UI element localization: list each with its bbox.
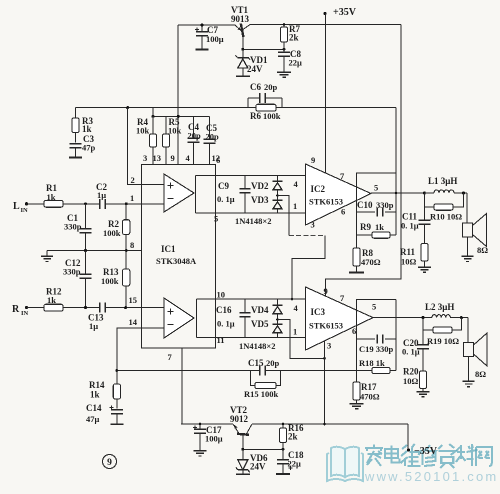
- wire pin2 from rail: [128, 108, 164, 185]
- svg-text:R: R: [12, 304, 20, 315]
- svg-text:L: L: [13, 201, 20, 212]
- inductor L1 3uH: [434, 190, 454, 193]
- resistor R8 470: [353, 248, 360, 266]
- node R_IN terminal: [25, 306, 28, 309]
- wire pin7 stub and box top y173: [357, 173, 397, 187]
- capacitor C8 22u: [283, 49, 285, 52]
- ground under speaker2: [468, 357, 470, 382]
- svg-text:3: 3: [327, 341, 331, 351]
- wire NFB rail y107.6: [76, 107, 397, 109]
- capacitor C15 20p series: [259, 366, 261, 376]
- wire VT2 base line y449.3: [243, 448, 283, 450]
- resistor R2 100k: [125, 204, 127, 220]
- svg-text:330p: 330p: [64, 222, 82, 232]
- resistor R10 10 parallel loop: [424, 193, 434, 207]
- svg-text:R15 100k: R15 100k: [244, 389, 279, 399]
- capacitor C7 100u: [201, 25, 203, 32]
- svg-text:9: 9: [311, 155, 315, 165]
- svg-text:0. 1μ: 0. 1μ: [217, 319, 235, 329]
- svg-text:24V: 24V: [247, 64, 263, 74]
- capacitor C9 0.1u: [244, 176, 246, 189]
- svg-text:IC1: IC1: [161, 244, 176, 254]
- svg-text:100k: 100k: [103, 228, 121, 238]
- resistor R20 10: [419, 371, 426, 389]
- svg-text:9013: 9013: [231, 14, 250, 24]
- wire IC3 pin3 drop: [324, 341, 326, 424]
- svg-text:L2 3μH: L2 3μH: [425, 302, 454, 312]
- svg-text:20p: 20p: [206, 132, 220, 142]
- svg-text:C16: C16: [216, 305, 232, 315]
- svg-text:R18 1k: R18 1k: [359, 358, 385, 368]
- ground under speaker1: [467, 237, 469, 256]
- svg-text:22μ: 22μ: [288, 459, 302, 469]
- node junction C1: [84, 202, 87, 205]
- wire pin10/pin4 line y299: [197, 298, 306, 300]
- ground under R8: [349, 272, 364, 274]
- svg-text:1N4148×2: 1N4148×2: [235, 216, 271, 226]
- wire +35V feed to IC3 pin9: [326, 25, 401, 296]
- svg-text:2: 2: [131, 175, 135, 185]
- svg-text:10k: 10k: [136, 126, 150, 136]
- wire ground line y250.5 pin8: [47, 250, 142, 252]
- resistor R11 10: [421, 244, 428, 262]
- op-amp IC3 STK6153: [306, 287, 374, 350]
- svg-text:6: 6: [352, 326, 356, 336]
- svg-text:11: 11: [217, 335, 225, 345]
- svg-text:1μ: 1μ: [97, 190, 106, 200]
- svg-text:IC2: IC2: [311, 184, 326, 194]
- svg-text:0. 1μ: 0. 1μ: [401, 221, 419, 231]
- wire NFB line y370.5: [117, 370, 260, 372]
- node diode midpoint ch2: [276, 318, 279, 321]
- svg-text:+35V: +35V: [333, 7, 357, 18]
- svg-text:470Ω: 470Ω: [361, 257, 381, 267]
- node diode midpoint ch1: [276, 194, 279, 197]
- svg-text:1μ: 1μ: [89, 321, 98, 331]
- svg-text:47μ: 47μ: [86, 414, 100, 424]
- ground under C17: [194, 450, 207, 452]
- ground under C14: [110, 423, 123, 425]
- wire rail right drop x396 to output: [395, 108, 397, 235]
- svg-text:14: 14: [129, 317, 138, 327]
- svg-text:20p: 20p: [264, 82, 278, 92]
- capacitor C10 330p: [357, 211, 376, 213]
- wire pin11/pin1 line y337.5: [197, 337, 306, 339]
- ground under C3: [69, 157, 82, 159]
- transistor VT1: [241, 24, 244, 38]
- svg-text:C9: C9: [218, 181, 229, 191]
- svg-text:100μ: 100μ: [206, 34, 224, 44]
- capacitor C2 1u: [99, 199, 101, 209]
- svg-text:5: 5: [214, 214, 218, 224]
- svg-text:470Ω: 470Ω: [360, 392, 380, 402]
- svg-text:1k: 1k: [82, 124, 92, 134]
- resistor R6 100k: [256, 104, 276, 111]
- capacitor C5 20p pin12: [209, 116, 211, 139]
- svg-text:1: 1: [293, 327, 297, 337]
- svg-text:R6: R6: [250, 111, 261, 121]
- svg-text:C6: C6: [250, 82, 261, 92]
- svg-text:9012: 9012: [230, 414, 249, 424]
- svg-text:10: 10: [217, 290, 226, 300]
- svg-text:8Ω: 8Ω: [475, 369, 486, 379]
- svg-text:STK6153: STK6153: [309, 321, 343, 331]
- svg-text:5: 5: [372, 302, 376, 312]
- svg-text:C15: C15: [248, 358, 264, 368]
- wire IC1 pin7 drop: [181, 348, 183, 424]
- wire box left column x356.5: [356, 173, 358, 248]
- wire pin1 line y213: [196, 212, 306, 214]
- ground under C7: [196, 49, 209, 51]
- capacitor C20 0.1u: [422, 330, 424, 345]
- svg-text:1k: 1k: [90, 390, 100, 400]
- inductor L2 3uH: [432, 315, 450, 318]
- svg-text:R19 10Ω: R19 10Ω: [427, 336, 459, 346]
- op-amp IC2 STK6153: [306, 164, 372, 225]
- svg-text:IN: IN: [21, 207, 29, 214]
- wire -35V drop: [407, 424, 409, 450]
- svg-text:330p: 330p: [63, 267, 81, 277]
- wire bottom rail y424: [181, 423, 233, 425]
- capacitor C11 0.1u: [423, 193, 425, 220]
- zener diode VD6 24V: [242, 449, 244, 459]
- svg-text:10Ω: 10Ω: [401, 257, 417, 267]
- svg-text:100k: 100k: [263, 111, 281, 121]
- resistor R18 1k: [372, 367, 390, 373]
- capacitor C12 330p: [85, 251, 87, 275]
- ground under VD1: [236, 75, 250, 77]
- resistor R12 1k: [27, 307, 45, 309]
- svg-text:22μ: 22μ: [289, 58, 303, 68]
- resistor R16 2k: [282, 424, 284, 428]
- svg-text:IN: IN: [21, 310, 29, 317]
- wire pin3 jog ch2: [278, 320, 325, 359]
- figure number 9 circled: [103, 455, 117, 469]
- zener diode VD1 24V: [242, 49, 244, 57]
- svg-text:8: 8: [130, 240, 134, 250]
- loudspeaker 1 8ohm: [466, 193, 468, 223]
- svg-text:2k: 2k: [289, 33, 299, 43]
- diode VD3: [277, 196, 279, 200]
- svg-text:1: 1: [130, 193, 134, 203]
- capacitor C14 47u: [109, 407, 113, 409]
- svg-text:R10 10Ω: R10 10Ω: [430, 212, 462, 222]
- svg-text:VD5: VD5: [251, 319, 269, 329]
- wire box2 right column x396: [395, 300, 397, 371]
- resistor R7 2k: [283, 25, 285, 28]
- svg-text:0. 1μ: 0. 1μ: [402, 347, 420, 357]
- svg-text:3: 3: [311, 220, 315, 230]
- capacitor C17 100u: [199, 424, 201, 429]
- capacitor C1 330p: [85, 204, 87, 229]
- ground under R20: [417, 391, 430, 393]
- resistor R5 10k pin13: [165, 116, 167, 134]
- wire regulator drop x178: [177, 25, 179, 165]
- node L_IN terminal: [25, 202, 28, 205]
- node +35V terminal: [324, 12, 327, 15]
- wire VD1 to R7 line y49: [243, 48, 284, 50]
- resistor R1 1k: [27, 203, 45, 205]
- capacitor C18 22u: [282, 449, 284, 460]
- resistor R14 1k: [116, 371, 118, 385]
- wire pin14 line: [117, 328, 164, 370]
- wire ladder left edge: [195, 176, 197, 213]
- wire VT1 emitter line y25: [178, 24, 235, 26]
- svg-text:−35V: −35V: [414, 446, 438, 457]
- svg-text:C14: C14: [86, 403, 102, 413]
- capacitor C3 47p: [75, 133, 77, 143]
- ground under R11: [418, 266, 431, 268]
- svg-text:VD4: VD4: [251, 305, 269, 315]
- ground under R17: [350, 403, 364, 405]
- wire pin7 stub and box top ch2: [357, 300, 397, 310]
- svg-text:20p: 20p: [266, 358, 280, 368]
- wire +35V vertical to IC2 pin 9: [324, 14, 326, 174]
- diode VD5: [277, 320, 279, 324]
- svg-text:47p: 47p: [82, 143, 96, 153]
- svg-text:STK6153: STK6153: [309, 197, 343, 207]
- svg-text:100k: 100k: [101, 276, 119, 286]
- svg-text:15: 15: [129, 295, 138, 305]
- resistor R13 100k: [125, 251, 127, 270]
- wire pin3 jog ch1: [278, 196, 290, 236]
- svg-text:www.520101.com: www.520101.com: [364, 469, 498, 484]
- svg-text:100μ: 100μ: [205, 434, 223, 444]
- node -35V terminal: [407, 448, 410, 451]
- svg-text:R17: R17: [361, 382, 377, 392]
- capacitor C16 0.1u: [244, 299, 246, 313]
- svg-text:1k: 1k: [47, 192, 56, 202]
- ground mid-left: [46, 251, 48, 257]
- op-amp IC1b triangle: [164, 298, 194, 338]
- resistor R15 100k parallel: [251, 371, 256, 386]
- transistor VT2: [237, 434, 249, 435]
- op-amp IC1 STK3048A box: [142, 165, 216, 349]
- svg-text:L1 3μH: L1 3μH: [428, 176, 457, 186]
- watermark book logo: [327, 447, 363, 481]
- svg-text:C19 330p: C19 330p: [359, 344, 394, 354]
- capacitor C19 330p: [357, 338, 376, 340]
- svg-text:8Ω: 8Ω: [477, 245, 488, 255]
- capacitor C13 1u / pin15 line: [99, 303, 101, 313]
- svg-text:330p: 330p: [376, 200, 394, 210]
- svg-text:20p: 20p: [188, 131, 202, 141]
- ground under C18: [276, 473, 290, 475]
- svg-text:STK3048A: STK3048A: [156, 256, 197, 266]
- svg-text:R11: R11: [400, 247, 416, 257]
- wire output line ch1 y193: [371, 192, 434, 194]
- svg-text:IC3: IC3: [311, 307, 326, 317]
- resistor R19 10 parallel loop: [423, 318, 433, 330]
- svg-text:R20: R20: [403, 367, 419, 377]
- capacitor C4 20p pin4: [193, 116, 195, 138]
- wire +35V top rail y24: [250, 24, 401, 26]
- svg-text:3: 3: [143, 153, 147, 163]
- svg-text:13: 13: [153, 153, 162, 163]
- svg-text:10k: 10k: [168, 126, 182, 136]
- svg-text:0. 1μ: 0. 1μ: [217, 194, 235, 204]
- svg-text:1: 1: [293, 201, 297, 211]
- svg-text:9: 9: [107, 458, 112, 468]
- svg-text:1k: 1k: [375, 222, 384, 232]
- svg-text:1N4148×2: 1N4148×2: [239, 341, 275, 351]
- svg-text:VD3: VD3: [251, 195, 269, 205]
- watermark chinese text: [365, 445, 383, 467]
- loudspeaker 2 8ohm: [467, 318, 469, 343]
- svg-text:24V: 24V: [250, 462, 266, 472]
- wire inner line y116.4: [153, 115, 210, 117]
- wire pin4 line y175.7: [196, 175, 306, 177]
- resistor R9 1k: [357, 234, 373, 236]
- svg-text:6: 6: [216, 155, 220, 165]
- wire ladder2 left edge: [196, 299, 198, 338]
- resistor R17 470: [353, 382, 360, 400]
- node junction R2: [125, 202, 128, 205]
- svg-text:1k: 1k: [47, 295, 56, 305]
- svg-text:2k: 2k: [288, 432, 298, 442]
- op-amp IC1a triangle: [164, 174, 194, 212]
- svg-text:10Ω: 10Ω: [403, 376, 419, 386]
- ground under VD6: [236, 473, 250, 475]
- svg-text:VD2: VD2: [251, 181, 269, 191]
- capacitor C6 20p: [247, 98, 249, 108]
- svg-text:C10: C10: [357, 200, 373, 210]
- svg-text:6: 6: [341, 207, 345, 217]
- resistor R4 10k pin3: [152, 108, 154, 134]
- ground under C8: [277, 71, 291, 73]
- svg-text:R9: R9: [360, 222, 371, 232]
- label -35V supply: [407, 448, 410, 451]
- diode VD4: [277, 299, 279, 305]
- wire box2 left column: [356, 300, 358, 383]
- diode VD2: [277, 176, 279, 181]
- resistor R3 1k: [75, 108, 77, 118]
- wire output line ch2 y317.6: [373, 317, 432, 319]
- svg-text:5: 5: [374, 183, 378, 193]
- svg-text:R14: R14: [89, 380, 105, 390]
- svg-text:9: 9: [171, 153, 175, 163]
